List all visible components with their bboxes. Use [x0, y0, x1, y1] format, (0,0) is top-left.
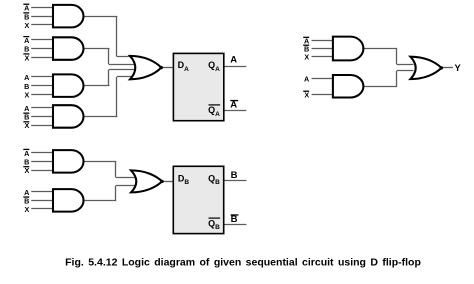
svg-text:B: B	[24, 45, 29, 54]
svg-text:A: A	[304, 74, 309, 83]
svg-text:A: A	[24, 188, 29, 197]
svg-text:B: B	[24, 12, 29, 21]
svg-text:B: B	[24, 82, 29, 91]
svg-text:A: A	[230, 55, 237, 66]
svg-text:X: X	[25, 121, 30, 130]
svg-text:A: A	[24, 73, 29, 82]
svg-text:A: A	[230, 100, 237, 111]
svg-text:B: B	[24, 157, 29, 166]
svg-text:Fig. 5.4.12 Logic diagram of g: Fig. 5.4.12 Logic diagram of given seque…	[65, 257, 421, 269]
svg-text:X: X	[304, 91, 309, 100]
svg-text:Y: Y	[455, 63, 462, 73]
svg-text:X: X	[25, 205, 30, 214]
svg-text:A: A	[24, 104, 29, 113]
svg-text:X: X	[25, 21, 30, 30]
svg-text:X: X	[25, 90, 30, 99]
svg-text:B: B	[24, 196, 29, 205]
svg-text:X: X	[304, 53, 309, 62]
svg-text:B: B	[231, 170, 238, 181]
svg-text:A: A	[24, 36, 29, 45]
svg-text:X: X	[25, 53, 30, 62]
svg-text:B: B	[24, 113, 29, 122]
svg-text:A: A	[24, 149, 29, 158]
svg-text:X: X	[25, 166, 30, 175]
svg-text:A: A	[24, 4, 29, 13]
svg-text:B: B	[231, 214, 238, 225]
